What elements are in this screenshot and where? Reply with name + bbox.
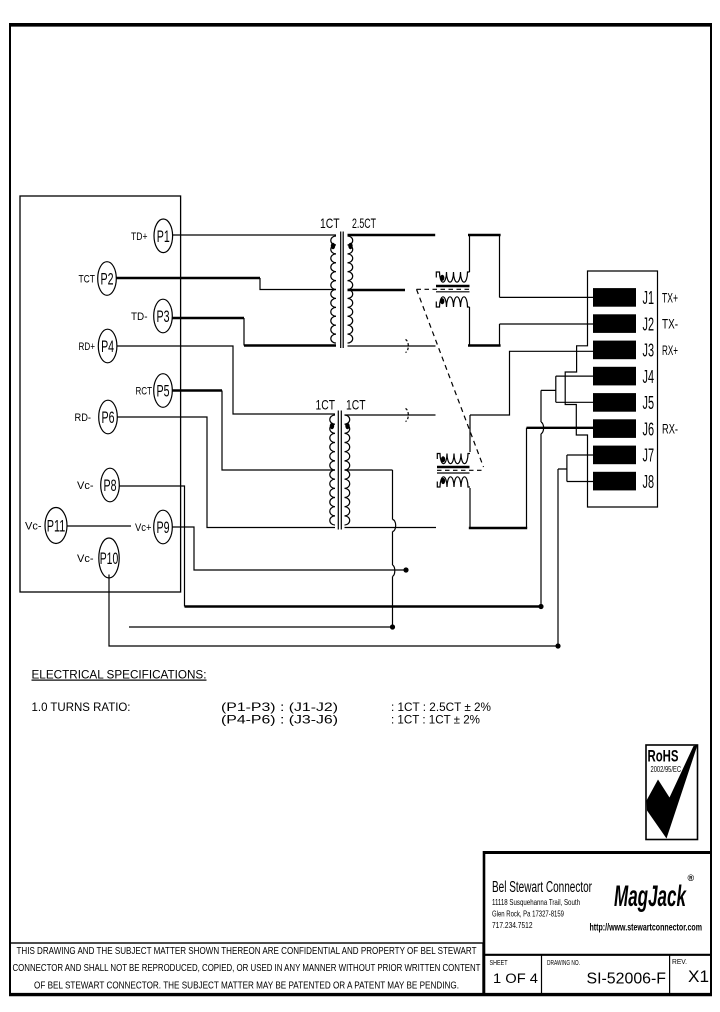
choke L1 top winding [436,272,469,282]
wire P2 jog down to T1 primary center tap [260,278,336,290]
choke L1 structure left edge [469,236,471,345]
svg-text:P2: P2 [101,271,114,289]
svg-text:J2: J2 [643,313,655,334]
svg-text:Glen Rock, Pa 17327-8159: Glen Rock, Pa 17327-8159 [492,909,564,919]
svg-text:J8: J8 [643,471,655,492]
pin P9 [154,510,173,544]
pin P5 [154,374,173,408]
contact pad J2 [593,314,636,333]
wire T2 secondary center tap [345,469,393,471]
svg-text:11118 Susquehanna Trail, South: 11118 Susquehanna Trail, South [492,897,580,907]
rail y=627 [129,626,393,628]
transformer T1 secondary winding [348,236,353,343]
svg-text:REV.: REV. [672,959,687,966]
transformer T1 primary winding [331,236,336,343]
svg-text:RD-: RD- [75,412,92,424]
svg-text:Bel Stewart Connector: Bel Stewart Connector [492,879,592,896]
choke L1 bottom winding [436,297,469,307]
svg-text:OF BEL STEWART CONNECTOR. THE: OF BEL STEWART CONNECTOR. THE SUBJECT MA… [34,980,459,992]
transformer T2 core [338,411,341,530]
vertical net from T2 secondary CT down to rail 627 [392,470,394,627]
wire J8 [567,481,594,483]
crossover arc mark on wire y=346 [406,340,409,353]
choke L2 core thick line [437,466,470,469]
pin P4 [98,329,117,363]
choke L2 bottom winding [437,477,470,487]
svg-text:X1: X1 [688,967,709,986]
junction dot at (392.5,627) [390,624,395,629]
wire T1 secondary bottom [348,345,436,347]
title block outline [483,851,712,995]
svg-text:DRAWING NO.: DRAWING NO. [547,960,580,967]
choke L2 core dashed line [437,469,485,471]
choke L2 structure right edge [526,428,528,528]
hop arc over wire y=570 [393,565,395,577]
wire P5 to T2 primary center tap [222,391,335,471]
contact pad J8 [593,472,636,491]
svg-text:1CT: 1CT [316,397,336,413]
svg-text:THIS DRAWING AND THE SUBJECT M: THIS DRAWING AND THE SUBJECT MATTER SHOW… [17,945,477,957]
wire P3 to T1 primary bottom (thick) [244,344,336,346]
choke L1 bottom winding dot [440,298,444,304]
svg-text:http://www.stewartconnector.co: http://www.stewartconnector.com [590,923,703,934]
svg-text:ELECTRICAL SPECIFICATIONS:: ELECTRICAL SPECIFICATIONS: [32,668,207,682]
connector block outline with notched left edge [565,271,657,507]
svg-text:RX-: RX- [662,422,678,437]
svg-text:TCT: TCT [79,274,96,286]
pin P6 [99,400,118,434]
svg-text:TD-: TD- [131,311,148,323]
RoHS checkmark [647,745,698,839]
svg-text:J3: J3 [643,340,655,361]
transformer T2 secondary polarity dot [345,423,349,429]
svg-text:2.5CT: 2.5CT [352,215,376,231]
wire P6 to T2 primary bottom [117,417,335,528]
contact pad J5 [593,393,636,412]
svg-text:MagJack: MagJack [614,880,687,913]
contact pad J6 [593,419,636,438]
pin P10 [99,538,119,578]
contact pad J7 [593,446,636,465]
choke L1 core thin line [436,291,470,293]
junction dot at (406,570) [403,567,408,572]
svg-text:J6: J6 [643,418,655,439]
svg-text:P9: P9 [157,519,170,537]
svg-text:RX+: RX+ [662,343,678,358]
transformer T2 primary polarity dot [330,423,334,429]
choke L2 core thin line [437,472,470,474]
dashed diagonal link from T1 secondary CT to choke L2 core [417,289,484,467]
transformer T1 secondary polarity dot [348,243,352,249]
svg-text:1CT: 1CT [320,215,340,231]
wire T2 secondary bottom [345,527,437,529]
wire P8 to Vc- rail [119,486,184,607]
choke L1 structure bottom edge (thick) [468,344,501,346]
svg-text:1CT: 1CT [346,397,366,413]
choke L2 top winding dot [441,456,445,462]
choke L2 structure bottom edge (thick) [469,527,527,529]
choke L1 output loop structure top edge (thick) [468,234,501,236]
svg-text:(P4-P6) : (J3-J6): (P4-P6) : (J3-J6) [221,713,338,727]
svg-text:Vc+: Vc+ [135,522,152,534]
svg-text:SHEET: SHEET [490,960,509,967]
svg-text:: 1CT : 1CT ± 2%: : 1CT : 1CT ± 2% [391,713,480,727]
svg-text:TD+: TD+ [131,231,148,243]
svg-text:J5: J5 [643,392,655,413]
svg-text:Vc-: Vc- [25,521,42,533]
svg-text:J4: J4 [643,366,655,387]
wire P11 to Vc+ label [67,525,131,527]
wire P1 to T1 primary top [173,234,336,236]
svg-text:RCT: RCT [136,386,153,398]
transformer T2 secondary winding [345,415,350,525]
transformer T1 core [341,232,344,349]
svg-text:P1: P1 [157,228,170,246]
svg-text:P4: P4 [101,338,114,356]
net J7-J8 tie and drop to rail y=646 [558,455,567,646]
svg-text:1 OF 4: 1 OF 4 [493,971,539,986]
junction dot at (558,646) [555,643,560,648]
pin P8 [101,468,120,502]
wire T1 secondary top (thick) [348,234,436,236]
wire J4 [556,375,594,377]
choke L1 core thick line [436,285,470,288]
connector pin box (P1-P11) [20,196,181,592]
choke L2 bottom winding dot [441,478,445,484]
contact pad J1 [593,288,636,307]
wire to J2 [500,323,594,325]
pin P1 [154,219,173,253]
wire J6 (thick) [527,427,594,429]
svg-text:J7: J7 [643,445,655,466]
choke L1 top winding dot [440,275,444,281]
svg-text:®: ® [688,873,695,883]
svg-text:Vc-: Vc- [77,480,94,492]
net J4-J5 tie and drop to Vc- rail [541,376,556,606]
contact pad J3 [593,341,636,360]
svg-text:P10: P10 [100,550,119,568]
hop arc over wire y=527 [393,520,396,532]
wire J7 [567,454,594,456]
pin P11 [45,508,67,544]
junction dot at (541,606.5) [538,604,543,609]
svg-text:P3: P3 [157,308,170,326]
wire P3 (TD-) thick segment [172,317,244,319]
choke L1 core dashed line [417,288,470,290]
pin P3 [154,299,173,333]
svg-text:RoHS: RoHS [648,747,679,766]
wire P9 to node (406,570) [172,527,406,570]
wire P10 down to rail y=646 [109,575,558,647]
wire T1 secondary center tap (thick) [348,289,406,291]
wire to J1 [500,296,594,298]
svg-text:1.0 TURNS RATIO:: 1.0 TURNS RATIO: [32,700,131,714]
wire J5 [556,401,594,403]
svg-text:J1: J1 [643,287,655,308]
svg-text:CONNECTOR AND SHALL NOT BE REP: CONNECTOR AND SHALL NOT BE REPRODUCED, C… [13,962,481,974]
wire T2 secondary top [345,414,436,416]
svg-text:P11: P11 [47,518,66,536]
choke L2 top winding [437,454,470,464]
wire T2 secondary top to J3 [470,351,594,415]
svg-text:TX-: TX- [662,317,678,332]
wire P4 to T2 primary top [117,346,335,414]
svg-text:TX+: TX+ [662,290,678,305]
transformer T2 primary winding [330,415,335,525]
svg-text:P6: P6 [102,409,115,427]
pin P2 [98,262,117,296]
disclaimer box [10,943,483,995]
svg-text:717.234.7512: 717.234.7512 [492,920,533,930]
Vc- thick rail y=606 [185,605,542,607]
svg-text:2002/95/EC: 2002/95/EC [651,765,682,774]
svg-text:RD+: RD+ [79,341,96,353]
choke L2 structure left edge [469,415,471,527]
svg-text:P5: P5 [157,383,170,401]
contact pad J4 [593,367,636,386]
wire P5 (RCT) thick segment [172,389,222,391]
wire P3 vertical jog [243,318,245,346]
wire P2 (TCT) thick segment [116,277,260,279]
crossover arc mark on wire y=415 [406,409,409,422]
svg-text:Vc-: Vc- [77,553,94,565]
svg-text:SI-52006-F: SI-52006-F [587,971,667,988]
svg-text:P8: P8 [104,477,117,495]
hop arc of vertical x=541 over J6 wire [541,422,544,434]
transformer T1 primary polarity dot [331,243,335,249]
choke L1 structure right edge [499,236,501,345]
RoHS logo box [646,745,698,840]
